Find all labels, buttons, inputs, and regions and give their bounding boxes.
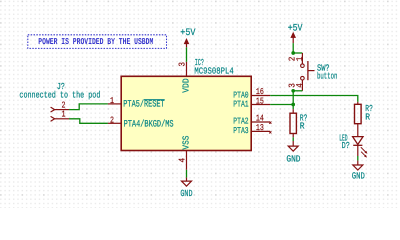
switch SW? top contact circle: [301, 64, 305, 68]
wire PTA0 to right resistor: [270, 96, 358, 102]
svg-text:VDD: VDD: [181, 78, 192, 93]
IC pin 3 VDD line: [186, 62, 188, 77]
svg-text:POWER IS PROVIDED BY THE USBDM: POWER IS PROVIDED BY THE USBDM: [38, 37, 153, 47]
power +5V right arrow: [290, 32, 296, 38]
IC pin 4 VSS line: [186, 151, 188, 170]
wire vertical bus: [292, 91, 294, 109]
svg-text:4: 4: [177, 158, 187, 163]
wire resistor to GND: [292, 137, 294, 141]
svg-text:+5V: +5V: [180, 27, 195, 38]
resistor R? mid body: [290, 113, 296, 133]
connector J? pin 1 chevron: [51, 117, 55, 121]
LED D? triangle: [353, 137, 363, 145]
ground right stub: [357, 161, 359, 165]
LED D? emission arrow 2: [361, 152, 367, 158]
wire J pin1 to IC pin2: [69, 119, 108, 124]
switch SW? bottom contact circle: [301, 76, 305, 80]
pin 14 NC x: [269, 122, 271, 124]
svg-text:1: 1: [110, 96, 114, 106]
svg-text:PTA1: PTA1: [233, 100, 248, 110]
IC pin 2 line: [108, 122, 121, 124]
note frame: POWER IS PROVIDED BY THE USBDM: [28, 35, 167, 49]
LED pin bottom: [357, 145, 359, 156]
power +5V left arrow: [184, 38, 190, 44]
svg-text:1: 1: [295, 57, 305, 62]
LED D? cathode bar: [353, 144, 362, 146]
wire VSS to GND: [186, 170, 188, 178]
junction C: [291, 103, 295, 107]
connector J? pin 2 line: [55, 109, 69, 111]
switch SW? pin 1/2 top: [301, 53, 303, 64]
ground mid symbol: [288, 146, 298, 151]
switch actuator bar: [307, 61, 309, 80]
LED D? emission arrow 1: [361, 147, 368, 154]
wire LED to GND: [357, 156, 359, 161]
svg-text:GND: GND: [180, 188, 192, 199]
wire junction to switch pin: [293, 52, 302, 54]
svg-text:VSS: VSS: [181, 135, 192, 149]
IC pin 14 line: [251, 121, 270, 123]
svg-text:MC9S08PL4: MC9S08PL4: [194, 65, 233, 76]
ground mid stub: [292, 141, 294, 146]
resistor R? mid pin bottom: [292, 134, 294, 138]
svg-text:13: 13: [256, 123, 264, 133]
ground VSS symbol: [182, 181, 192, 186]
resistor R? mid pin top: [292, 109, 294, 113]
pin 13 NC x: [269, 131, 271, 133]
wire PTA1 to junction: [270, 104, 293, 106]
junction A: [291, 51, 295, 55]
switch SW? pin 3/4 bottom: [301, 80, 303, 91]
svg-text:15: 15: [256, 96, 264, 106]
svg-text:2: 2: [110, 115, 114, 125]
svg-text:R: R: [300, 120, 305, 131]
wire +5V to VDD: [186, 47, 188, 62]
connector J? pin 2 chevron: [51, 107, 55, 111]
svg-text:3: 3: [177, 62, 187, 67]
IC U1 body: [121, 76, 251, 150]
svg-text:R: R: [365, 111, 370, 122]
svg-text:4: 4: [295, 83, 305, 88]
svg-text:PTA5/RESET: PTA5/RESET: [123, 99, 165, 110]
IC pin 1 line: [108, 103, 121, 105]
resistor right pin bottom: [357, 124, 359, 137]
svg-text:button: button: [317, 71, 337, 82]
resistor R? right body: [355, 104, 362, 123]
switch actuator stem: [308, 70, 315, 72]
svg-text:+5V: +5V: [288, 22, 303, 33]
svg-text:PTA3: PTA3: [233, 126, 248, 136]
svg-text:PTA4/BKGD/MS: PTA4/BKGD/MS: [124, 118, 174, 129]
svg-text:1: 1: [62, 110, 66, 120]
resistor R? right pin top: [357, 102, 359, 104]
RESET overline: [144, 99, 165, 101]
ground VSS stub: [186, 178, 188, 182]
connector J? pin 1 line: [55, 118, 69, 120]
ground right symbol: [353, 165, 363, 170]
svg-text:D?: D?: [342, 140, 350, 151]
junction B: [291, 89, 295, 93]
svg-text:GND: GND: [286, 154, 300, 165]
IC pin 16 line: [251, 95, 270, 97]
svg-text:GND: GND: [352, 171, 365, 182]
wire +5V to switch: [292, 43, 294, 53]
IC pin 13 line: [251, 130, 270, 132]
wire J pin2 to IC pin1: [69, 104, 108, 110]
svg-text:connected to the pod: connected to the pod: [19, 89, 100, 100]
IC pin 15 line: [251, 104, 270, 106]
wire switch bottom to bus: [293, 90, 302, 92]
